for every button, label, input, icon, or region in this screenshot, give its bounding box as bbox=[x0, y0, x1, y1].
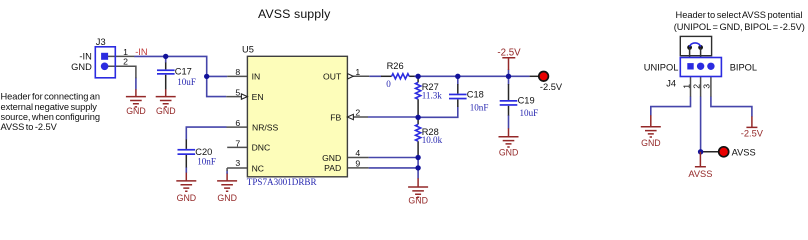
svg-text:J4: J4 bbox=[666, 79, 676, 89]
svg-text:1: 1 bbox=[681, 84, 691, 89]
svg-text:OUT: OUT bbox=[323, 71, 342, 81]
svg-text:10nF: 10nF bbox=[197, 156, 216, 166]
svg-text:GND: GND bbox=[322, 153, 341, 163]
svg-text:external negative supply: external negative supply bbox=[1, 102, 98, 112]
svg-text:4: 4 bbox=[355, 148, 360, 158]
svg-text:7: 7 bbox=[235, 138, 240, 148]
svg-text:10nF: 10nF bbox=[470, 102, 489, 112]
svg-text:AVSS supply: AVSS supply bbox=[258, 7, 331, 21]
svg-text:8: 8 bbox=[235, 67, 240, 77]
svg-text:R26: R26 bbox=[387, 61, 404, 71]
svg-text:NC: NC bbox=[252, 163, 264, 173]
svg-text:10uF: 10uF bbox=[520, 108, 539, 118]
svg-text:U5: U5 bbox=[242, 44, 254, 54]
svg-text:IN: IN bbox=[252, 72, 261, 82]
svg-text:NR/SS: NR/SS bbox=[252, 122, 279, 132]
svg-text:EN: EN bbox=[252, 92, 264, 102]
svg-text:3: 3 bbox=[702, 84, 712, 89]
svg-text:2: 2 bbox=[123, 56, 128, 66]
svg-text:9: 9 bbox=[355, 159, 360, 169]
svg-text:6: 6 bbox=[235, 118, 240, 128]
svg-text:UNIPOL: UNIPOL bbox=[644, 63, 679, 73]
svg-text:2: 2 bbox=[691, 84, 701, 89]
svg-text:-2.5V: -2.5V bbox=[540, 82, 563, 92]
svg-text:source, when configuring: source, when configuring bbox=[1, 112, 100, 122]
svg-text:-IN: -IN bbox=[79, 52, 91, 62]
svg-text:DNC: DNC bbox=[252, 143, 271, 153]
svg-text:GND: GND bbox=[71, 62, 92, 72]
svg-text:GND: GND bbox=[641, 138, 661, 148]
svg-text:11.3k: 11.3k bbox=[422, 90, 443, 100]
svg-text:Header for connecting an: Header for connecting an bbox=[1, 92, 100, 102]
svg-text:GND: GND bbox=[217, 193, 237, 203]
svg-text:C18: C18 bbox=[467, 90, 484, 100]
svg-text:C17: C17 bbox=[175, 67, 192, 77]
svg-text:FB: FB bbox=[330, 112, 341, 122]
svg-text:Header to select AVSS potentia: Header to select AVSS potential bbox=[676, 10, 803, 20]
svg-text:3: 3 bbox=[235, 158, 240, 168]
svg-text:-2.5V: -2.5V bbox=[741, 128, 764, 138]
svg-text:GND: GND bbox=[408, 195, 428, 205]
svg-text:C19: C19 bbox=[518, 96, 535, 106]
svg-text:GND: GND bbox=[126, 106, 146, 116]
svg-text:J3: J3 bbox=[96, 37, 106, 47]
svg-text:AVSS to -2.5V: AVSS to -2.5V bbox=[1, 122, 58, 132]
svg-text:(UNIPOL = GND, BIPOL = -2.5V): (UNIPOL = GND, BIPOL = -2.5V) bbox=[674, 22, 805, 32]
svg-text:10.0k: 10.0k bbox=[422, 135, 443, 145]
svg-text:GND: GND bbox=[499, 148, 519, 158]
svg-text:-2.5V: -2.5V bbox=[497, 47, 521, 58]
svg-text:5: 5 bbox=[235, 88, 240, 98]
svg-text:GND: GND bbox=[177, 193, 197, 203]
svg-text:10uF: 10uF bbox=[177, 77, 196, 87]
svg-text:GND: GND bbox=[156, 106, 176, 116]
svg-text:BIPOL: BIPOL bbox=[730, 63, 757, 73]
svg-text:0: 0 bbox=[386, 79, 391, 89]
svg-text:AVSS: AVSS bbox=[688, 169, 712, 179]
svg-text:2: 2 bbox=[355, 107, 360, 117]
svg-text:AVSS: AVSS bbox=[732, 148, 756, 158]
svg-text:-IN: -IN bbox=[135, 47, 147, 57]
svg-text:1: 1 bbox=[355, 67, 360, 77]
svg-text:TPS7A3001DRBR: TPS7A3001DRBR bbox=[247, 177, 318, 187]
svg-text:PAD: PAD bbox=[324, 163, 341, 173]
